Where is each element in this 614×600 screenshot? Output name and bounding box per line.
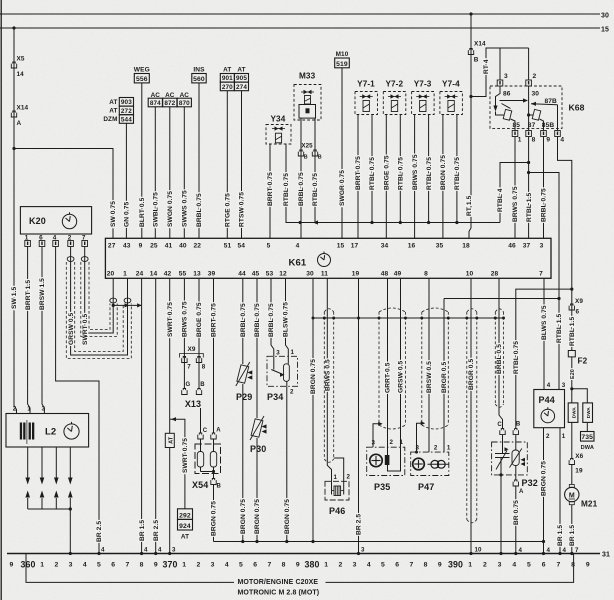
svg-text:9: 9 — [139, 242, 143, 249]
svg-text:BRBL 0.75: BRBL 0.75 — [541, 188, 548, 222]
svg-text:BRRT 1.5: BRRT 1.5 — [25, 280, 32, 310]
wire 270 to K61 pin 51 (RTGE 0.75) — [226, 91, 228, 239]
svg-text:BRGN 0.75: BRGN 0.75 — [284, 499, 291, 534]
svg-text:1: 1 — [518, 137, 522, 144]
svg-text:11: 11 — [321, 271, 328, 278]
HT ground collector wire — [28, 508, 71, 510]
svg-text:6: 6 — [395, 562, 399, 569]
svg-text:12: 12 — [279, 271, 287, 278]
svg-text:13: 13 — [193, 271, 201, 278]
svg-text:SWBL 0.75: SWBL 0.75 — [153, 192, 160, 227]
svg-text:7: 7 — [267, 562, 271, 569]
wire K61 pin7 to P44 pin4 (BLWS 0.75) — [543, 278, 545, 389]
svg-text:6: 6 — [576, 309, 580, 316]
svg-text:30: 30 — [532, 91, 540, 98]
svg-text:39: 39 — [208, 271, 216, 278]
svg-text:B: B — [516, 421, 521, 427]
K68 bottom terminal 8 — [526, 131, 532, 137]
svg-text:10: 10 — [466, 271, 474, 278]
svg-text:RTBL 0.75: RTBL 0.75 — [426, 157, 433, 190]
svg-text:RTBL 0.75: RTBL 0.75 — [513, 341, 520, 374]
svg-text:1: 1 — [291, 349, 295, 356]
svg-text:BR 2.5: BR 2.5 — [356, 514, 363, 535]
svg-text:P46: P46 — [329, 506, 345, 516]
svg-text:RTBL 4: RTBL 4 — [497, 188, 504, 212]
wire K61 pin8 (BRSW 0.5) shielded to P47 pin2 — [428, 278, 430, 452]
svg-text:4: 4 — [547, 382, 551, 389]
shield S4 — [466, 312, 468, 520]
shielded pair K20 pin7 (SWRT 0.5) to K61 pin 20 — [85, 247, 114, 334]
wire P34 pin2 to ground bus (BRGN 0.75) — [286, 386, 288, 541]
svg-text:3: 3 — [42, 406, 46, 413]
svg-text:270: 270 — [222, 84, 233, 91]
svg-text:380: 380 — [305, 559, 320, 569]
svg-text:AT: AT — [109, 99, 117, 106]
svg-text:L2: L2 — [45, 427, 56, 438]
engine designation bracket — [26, 554, 234, 583]
svg-text:7: 7 — [539, 271, 543, 278]
wire crossbar to P32 pin B (RTBL 0.75) — [516, 289, 572, 429]
shield drain link to pin24 ground wire — [113, 304, 141, 306]
junction crossbar to P32-B — [570, 288, 573, 291]
svg-text:53: 53 — [266, 271, 274, 278]
ref box DWA left — [568, 403, 578, 423]
svg-text:370: 370 — [163, 559, 178, 569]
svg-text:43: 43 — [123, 242, 131, 249]
svg-text:390: 390 — [448, 559, 463, 569]
wire K68 pin8 to K61 pin 37 (RTBL 1.5) — [528, 137, 530, 239]
svg-text:BR 1.5: BR 1.5 — [139, 520, 146, 541]
svg-text:B: B — [217, 484, 222, 490]
svg-text:AT: AT — [109, 108, 117, 115]
svg-text:SWWS 0.75: SWWS 0.75 — [182, 190, 189, 227]
wire 870 to K61 pin 40 (SWWS 0.75) — [183, 107, 185, 239]
junction pin42 branch (arrow) — [171, 417, 176, 421]
wire Y7-4 pin1 to K61 pin 35 — [442, 115, 444, 239]
shield S1 around P46 cable — [323, 312, 325, 459]
wire M33 pin1 through X25 to K61 pin 4 (BRBL 0.75) — [300, 118, 302, 238]
svg-text:M21: M21 — [581, 500, 598, 509]
svg-text:DZM: DZM — [103, 116, 117, 123]
wire P29 to ground bus (BRGN 0.75) — [242, 384, 244, 542]
svg-text:4: 4 — [83, 562, 87, 569]
junction to K61 pin27 branch — [12, 147, 15, 150]
svg-text:272: 272 — [121, 108, 132, 115]
svg-text:40: 40 — [179, 242, 187, 249]
svg-text:E20: E20 — [570, 369, 576, 379]
svg-text:B: B — [304, 155, 308, 161]
svg-text:BRGN 0.75: BRGN 0.75 — [240, 499, 247, 534]
svg-text:292: 292 — [179, 513, 191, 520]
svg-text:X13: X13 — [185, 399, 201, 409]
wire bus 15 (ignition +) — [0, 27, 600, 29]
svg-text:44: 44 — [238, 271, 246, 278]
wire 872 to K61 pin 41 (SWGN 0.75) — [169, 107, 171, 239]
svg-text:19: 19 — [352, 271, 360, 278]
K68 internal coil 1 — [496, 86, 501, 106]
svg-text:51: 51 — [224, 242, 232, 249]
junction on K68 pin8 wire — [527, 161, 530, 164]
wire P44 pin2 (BRGN 0.75) to ground bus and rail — [543, 428, 545, 554]
svg-text:17: 17 — [351, 242, 359, 249]
wire K61 pin44 (BRBL 0.75) to P29 — [242, 278, 244, 364]
svg-text:2: 2 — [546, 433, 550, 440]
wire K61 pin30 to ground bus (BRGN 0.75) — [312, 278, 314, 541]
svg-text:F2: F2 — [578, 357, 588, 366]
ECU K61 box — [105, 238, 551, 278]
P32 pin A connector — [513, 480, 518, 486]
wire 274 to K61 pin 54 (RTSW 0.75) — [241, 91, 243, 239]
wire K61 pin49 (GRSW 0.5) shielded to P35 pin1 — [400, 278, 402, 447]
svg-text:4: 4 — [367, 562, 371, 569]
junction RTBL bus / Y7-3 — [427, 221, 430, 224]
K68 internal coil 2 to terminal 9 — [540, 119, 544, 131]
svg-text:54: 54 — [238, 242, 246, 249]
svg-text:RTBL 1.5: RTBL 1.5 — [569, 317, 576, 346]
svg-text:SWRT 0.75: SWRT 0.75 — [182, 438, 189, 473]
svg-text:P30: P30 — [250, 444, 266, 454]
svg-text:4: 4 — [144, 547, 148, 554]
svg-text:1: 1 — [27, 406, 31, 413]
svg-text:BLWS 0.75: BLWS 0.75 — [541, 305, 548, 340]
svg-text:G: G — [186, 382, 191, 388]
page scan border left — [0, 0, 2, 600]
svg-text:1: 1 — [468, 562, 472, 569]
shield dashes outer pair — [75, 262, 124, 352]
svg-text:X6: X6 — [575, 453, 583, 460]
wire Y7-2 pin1 to K61 pin 34 — [385, 115, 387, 239]
svg-text:DWA: DWA — [581, 445, 594, 451]
svg-text:16: 16 — [408, 242, 416, 249]
svg-text:SWRT 0.75: SWRT 0.75 — [167, 302, 174, 337]
wire RTBL 4 from K68 pin1 branch to bus — [500, 163, 529, 223]
svg-text:2: 2 — [13, 406, 17, 413]
svg-text:874: 874 — [150, 100, 161, 107]
wire Y34 pin2 to RTBL bus (RTBL 0.75) — [285, 144, 287, 223]
connector X14 pin B — [468, 49, 473, 55]
svg-text:AT: AT — [181, 534, 189, 541]
svg-text:2: 2 — [290, 389, 294, 396]
relay K68 box — [490, 86, 562, 128]
svg-text:M33: M33 — [299, 72, 316, 81]
svg-text:544: 544 — [121, 116, 132, 123]
svg-text:P35: P35 — [374, 482, 390, 492]
junction coil2 tap — [527, 113, 530, 116]
junction RTBL bus / M33 wire (arrow) — [313, 220, 318, 224]
K68 terminal 3 — [497, 80, 503, 86]
K68 internal coil 2 — [529, 114, 534, 116]
svg-text:K68: K68 — [569, 103, 585, 113]
svg-text:8: 8 — [424, 271, 428, 278]
svg-text:14: 14 — [17, 71, 25, 78]
svg-text:870: 870 — [179, 100, 190, 107]
wire branch to DWA box right — [572, 389, 588, 403]
svg-text:5: 5 — [527, 562, 531, 569]
svg-text:M: M — [569, 493, 575, 500]
wire 544 to K61 pin 43 (GN 0.75) — [125, 123, 127, 238]
wire shielded BRGR 0.5 from crossbar to ground rail — [470, 299, 472, 554]
svg-text:BRBL 0.75: BRBL 0.75 — [254, 303, 261, 337]
svg-text:BRBL 0.75: BRBL 0.75 — [240, 303, 247, 337]
svg-text:10: 10 — [475, 547, 483, 554]
wire M33 pin2 through X25 to RTBL bus (RTBL 0.75) — [314, 118, 316, 222]
svg-text:BRGN 0.75: BRGN 0.75 — [541, 461, 548, 496]
svg-text:15: 15 — [337, 242, 345, 249]
shield dashes inner pair — [89, 262, 110, 330]
svg-text:BRGR 0.5: BRGR 0.5 — [441, 362, 448, 393]
junction on bus 15 at x14 — [12, 26, 15, 29]
svg-text:15: 15 — [601, 26, 609, 33]
svg-text:DWA: DWA — [586, 407, 591, 419]
svg-text:C: C — [203, 428, 208, 434]
svg-text:7: 7 — [556, 562, 560, 569]
svg-text:2: 2 — [196, 562, 200, 569]
svg-text:905: 905 — [236, 75, 247, 82]
svg-text:RTBL 1.5: RTBL 1.5 — [556, 314, 563, 343]
svg-text:BRGN 0.75: BRGN 0.75 — [440, 155, 447, 190]
svg-text:4: 4 — [560, 137, 564, 144]
svg-text:2: 2 — [533, 73, 537, 80]
svg-text:9: 9 — [546, 137, 550, 144]
shield S3 around P47 cable — [421, 312, 423, 425]
junction RTBL bus / Y7-2 — [399, 221, 402, 224]
svg-text:22: 22 — [194, 242, 202, 249]
svg-text:P29: P29 — [236, 392, 252, 402]
svg-text:1: 1 — [562, 433, 566, 440]
wire branch to K61 pin 27 (SW 0.75) — [14, 149, 113, 239]
K68 contact arm 2 — [531, 102, 536, 106]
svg-text:B: B — [318, 155, 322, 161]
svg-text:SWRT 0.5: SWRT 0.5 — [82, 314, 89, 345]
svg-text:BRWS 0.75: BRWS 0.75 — [512, 186, 519, 222]
svg-text:519: 519 — [336, 61, 348, 68]
ref box AT on pin42 wire — [165, 433, 174, 447]
svg-text:X25: X25 — [301, 143, 313, 150]
junction RTBL bus / Y7-1 — [370, 221, 373, 224]
svg-text:4: 4 — [158, 547, 162, 554]
wire stub to X54 pin C — [200, 408, 202, 433]
wire Y7-3 pin1 to K61 pin 16 — [414, 115, 416, 239]
svg-text:6: 6 — [542, 562, 546, 569]
wire X54 B (BRGN 0.75) to ground bus — [213, 485, 215, 542]
svg-text:45: 45 — [252, 271, 260, 278]
svg-text:WEG: WEG — [134, 67, 150, 74]
connector X9 pin 6 — [569, 304, 574, 310]
svg-text:9: 9 — [296, 562, 300, 569]
shielded pair K20 pin2 (GRSW 0.5) to K61 pin 1 — [71, 247, 128, 356]
svg-text:7: 7 — [125, 562, 129, 569]
svg-text:46: 46 — [508, 242, 516, 249]
junction pin8 branch to P44 — [527, 171, 530, 174]
svg-text:RTBL 0.75: RTBL 0.75 — [454, 157, 461, 190]
shield start symbols at K61 side — [110, 298, 117, 303]
svg-text:BRSW 0.5: BRSW 0.5 — [426, 361, 433, 393]
svg-text:RTGE 0.75: RTGE 0.75 — [225, 193, 232, 227]
K68 wire 30 through to pin 8 — [528, 86, 530, 131]
junction RT4 branch — [469, 95, 472, 98]
svg-text:3: 3 — [69, 562, 73, 569]
svg-text:27: 27 — [108, 242, 116, 249]
svg-text:BRGN 0.75: BRGN 0.75 — [254, 499, 261, 534]
svg-text:P44: P44 — [539, 395, 555, 405]
svg-text:9: 9 — [586, 562, 590, 569]
svg-text:RTBL 0.75: RTBL 0.75 — [312, 173, 319, 206]
svg-text:8: 8 — [202, 364, 206, 371]
svg-text:5: 5 — [239, 562, 243, 569]
svg-text:P47: P47 — [418, 482, 434, 492]
wire Y7-1 pin2 to RTBL bus — [371, 115, 373, 223]
wire K61 pin14 to ground rail (BR 2.5) — [155, 278, 157, 553]
svg-text:1: 1 — [324, 562, 328, 569]
wire K61 pin28 (BRBL 0.5) shielded to P32 pin C — [499, 278, 503, 428]
svg-text:BR 1.5: BR 1.5 — [557, 525, 564, 546]
svg-text:1: 1 — [400, 439, 404, 446]
svg-text:560: 560 — [193, 76, 205, 83]
svg-text:BRGE 0.75: BRGE 0.75 — [196, 302, 203, 337]
junction P32 ground exit — [499, 473, 502, 476]
crossbar wire from K61 pin10 — [470, 278, 472, 298]
wire Y7-3 pin2 to RTBL bus — [428, 115, 430, 223]
wire 519 to K61 pin 15 (SWGR 0.75) — [341, 68, 343, 239]
svg-text:1: 1 — [40, 562, 44, 569]
wire 874 to K61 pin 25 (SWBL 0.75) — [154, 107, 156, 239]
svg-text:19: 19 — [575, 468, 583, 475]
connector X14 pin A — [11, 111, 16, 117]
svg-text:RTSW 0.75: RTSW 0.75 — [239, 192, 246, 227]
svg-text:BRRT 0.75: BRRT 0.75 — [355, 156, 362, 190]
svg-text:Y34: Y34 — [271, 115, 286, 124]
wire K68 pin9 to K61 pin 3 (BRBL 0.75) — [543, 137, 545, 239]
svg-text:GRRT 0.5: GRRT 0.5 — [385, 362, 392, 393]
wire K61 pin13 (BRGE 0.75) via X9-8 to X13-B — [198, 278, 200, 388]
svg-text:4: 4 — [101, 547, 105, 554]
svg-text:1: 1 — [447, 445, 451, 452]
svg-text:X5: X5 — [17, 56, 25, 63]
svg-text:BR 1.5: BR 1.5 — [569, 525, 576, 546]
svg-text:BRGE 0.75: BRGE 0.75 — [384, 155, 391, 190]
svg-text:3: 3 — [172, 547, 176, 554]
svg-text:20: 20 — [107, 271, 115, 278]
wire Y7-4 pin2 to RTBL bus — [456, 115, 458, 223]
svg-text:274: 274 — [236, 84, 247, 91]
svg-text:360: 360 — [21, 559, 36, 569]
svg-text:9: 9 — [10, 562, 14, 569]
wire K61 pin39 (BRRT 0.75) to X54 pin A — [213, 278, 215, 433]
svg-text:903: 903 — [121, 99, 132, 106]
svg-text:BRRT 0.75: BRRT 0.75 — [211, 303, 218, 337]
svg-text:924: 924 — [179, 523, 191, 530]
svg-text:556: 556 — [136, 76, 148, 83]
svg-text:BRWS 0.75: BRWS 0.75 — [412, 154, 419, 190]
svg-text:RTBL 0.75: RTBL 0.75 — [283, 173, 290, 206]
svg-text:7: 7 — [409, 562, 413, 569]
junction on bus 30 at x471 — [469, 12, 472, 15]
wire P32 left element to ground rail — [500, 475, 502, 554]
wire from bus30 through X14-B (RT 1.5) to K61 pin 18 — [469, 14, 471, 238]
svg-text:BRGR 0.5: BRGR 0.5 — [468, 359, 475, 390]
wire P30 to ground bus (BRGN 0.75) — [256, 438, 258, 542]
svg-text:BRBL 0.5: BRBL 0.5 — [496, 344, 503, 374]
wire 560 to K61 pin 22 (BRBL 0.75) — [198, 83, 200, 238]
wire 556 to K61 pin 9 (BLRT 0.5) — [141, 83, 143, 238]
svg-text:5: 5 — [267, 242, 271, 249]
svg-text:25: 25 — [150, 242, 158, 249]
wire K61 pin45 (BRBL 0.75) to P30 — [256, 278, 258, 418]
svg-text:GRSW 0.5: GRSW 0.5 — [68, 312, 75, 345]
svg-text:K20: K20 — [29, 216, 46, 226]
svg-text:901: 901 — [222, 75, 233, 82]
svg-text:14: 14 — [150, 271, 158, 278]
svg-text:DWA: DWA — [571, 407, 576, 419]
L2 HT output wires with arrows to spark plugs — [27, 447, 29, 478]
wire K61 pin53 (BRBL 0.75) to P34 pin3 — [271, 278, 274, 356]
svg-text:2: 2 — [390, 439, 394, 446]
svg-text:8: 8 — [282, 562, 286, 569]
wire P32 pin A to ground rail (BR 0.75) — [515, 486, 517, 554]
svg-text:Y7-3: Y7-3 — [414, 80, 432, 89]
fuse F2 — [568, 351, 575, 357]
wire Y34 pin1 to K61 pin 5 (BRRT 0.75) — [269, 144, 271, 238]
svg-text:M10: M10 — [336, 51, 349, 58]
wire K20 pin4 to ground rail (BR 2.5) — [56, 247, 99, 554]
svg-text:Y7-1: Y7-1 — [357, 80, 375, 89]
svg-text:3: 3 — [498, 562, 502, 569]
svg-text:SWGN 0.75: SWGN 0.75 — [167, 191, 174, 227]
svg-text:31: 31 — [602, 551, 610, 558]
svg-text:BR 2.5: BR 2.5 — [96, 521, 103, 542]
svg-text:X14: X14 — [17, 105, 29, 112]
wire DWA right to 735 box — [586, 422, 588, 431]
wire bus 30 (battery +) — [0, 13, 600, 15]
wire Y7-2 pin2 to RTBL bus — [399, 115, 401, 223]
svg-text:P32: P32 — [522, 478, 538, 488]
svg-text:P34: P34 — [267, 392, 283, 402]
svg-text:28: 28 — [491, 271, 499, 278]
shield drain bus at y318 — [313, 317, 504, 319]
ref box 735 DWA — [581, 432, 595, 442]
svg-text:6: 6 — [253, 562, 257, 569]
svg-text:BLRT 0.5: BLRT 0.5 — [139, 197, 146, 227]
svg-text:2: 2 — [338, 562, 342, 569]
svg-text:2: 2 — [434, 444, 438, 451]
svg-text:3: 3 — [562, 382, 566, 389]
K68 contact arm 1 — [500, 100, 526, 102]
svg-text:A: A — [519, 489, 524, 495]
svg-text:B: B — [474, 57, 479, 64]
svg-text:2: 2 — [483, 562, 487, 569]
svg-text:X9: X9 — [575, 298, 583, 305]
svg-text:4: 4 — [225, 562, 229, 569]
svg-text:41: 41 — [165, 242, 173, 249]
svg-text:BRBL 0.75: BRBL 0.75 — [298, 172, 305, 206]
svg-text:RT 1.5: RT 1.5 — [466, 195, 473, 216]
svg-text:49: 49 — [394, 271, 402, 278]
junction RTBL bus / K61 pin4 wire — [299, 221, 302, 224]
K68 terminal 2 — [526, 80, 532, 86]
wire K68 pin4 down right side (RTBL 1.5) through X9-6 to F2 — [558, 137, 572, 351]
wire from bus15 to L2 pin2 (SW 1.5) — [14, 28, 17, 414]
wire branch SWRT 0.75 to ref boxes 292/924 — [170, 419, 185, 509]
svg-text:A: A — [216, 428, 221, 434]
svg-text:3: 3 — [276, 349, 280, 356]
svg-text:1: 1 — [334, 474, 338, 481]
X54 pin B output — [213, 472, 215, 479]
wire DWA left box to X6 — [571, 422, 573, 458]
svg-text:3: 3 — [211, 562, 215, 569]
svg-text:GRSW 0.5: GRSW 0.5 — [398, 360, 405, 393]
svg-text:3: 3 — [540, 242, 544, 249]
svg-text:872: 872 — [164, 100, 175, 107]
